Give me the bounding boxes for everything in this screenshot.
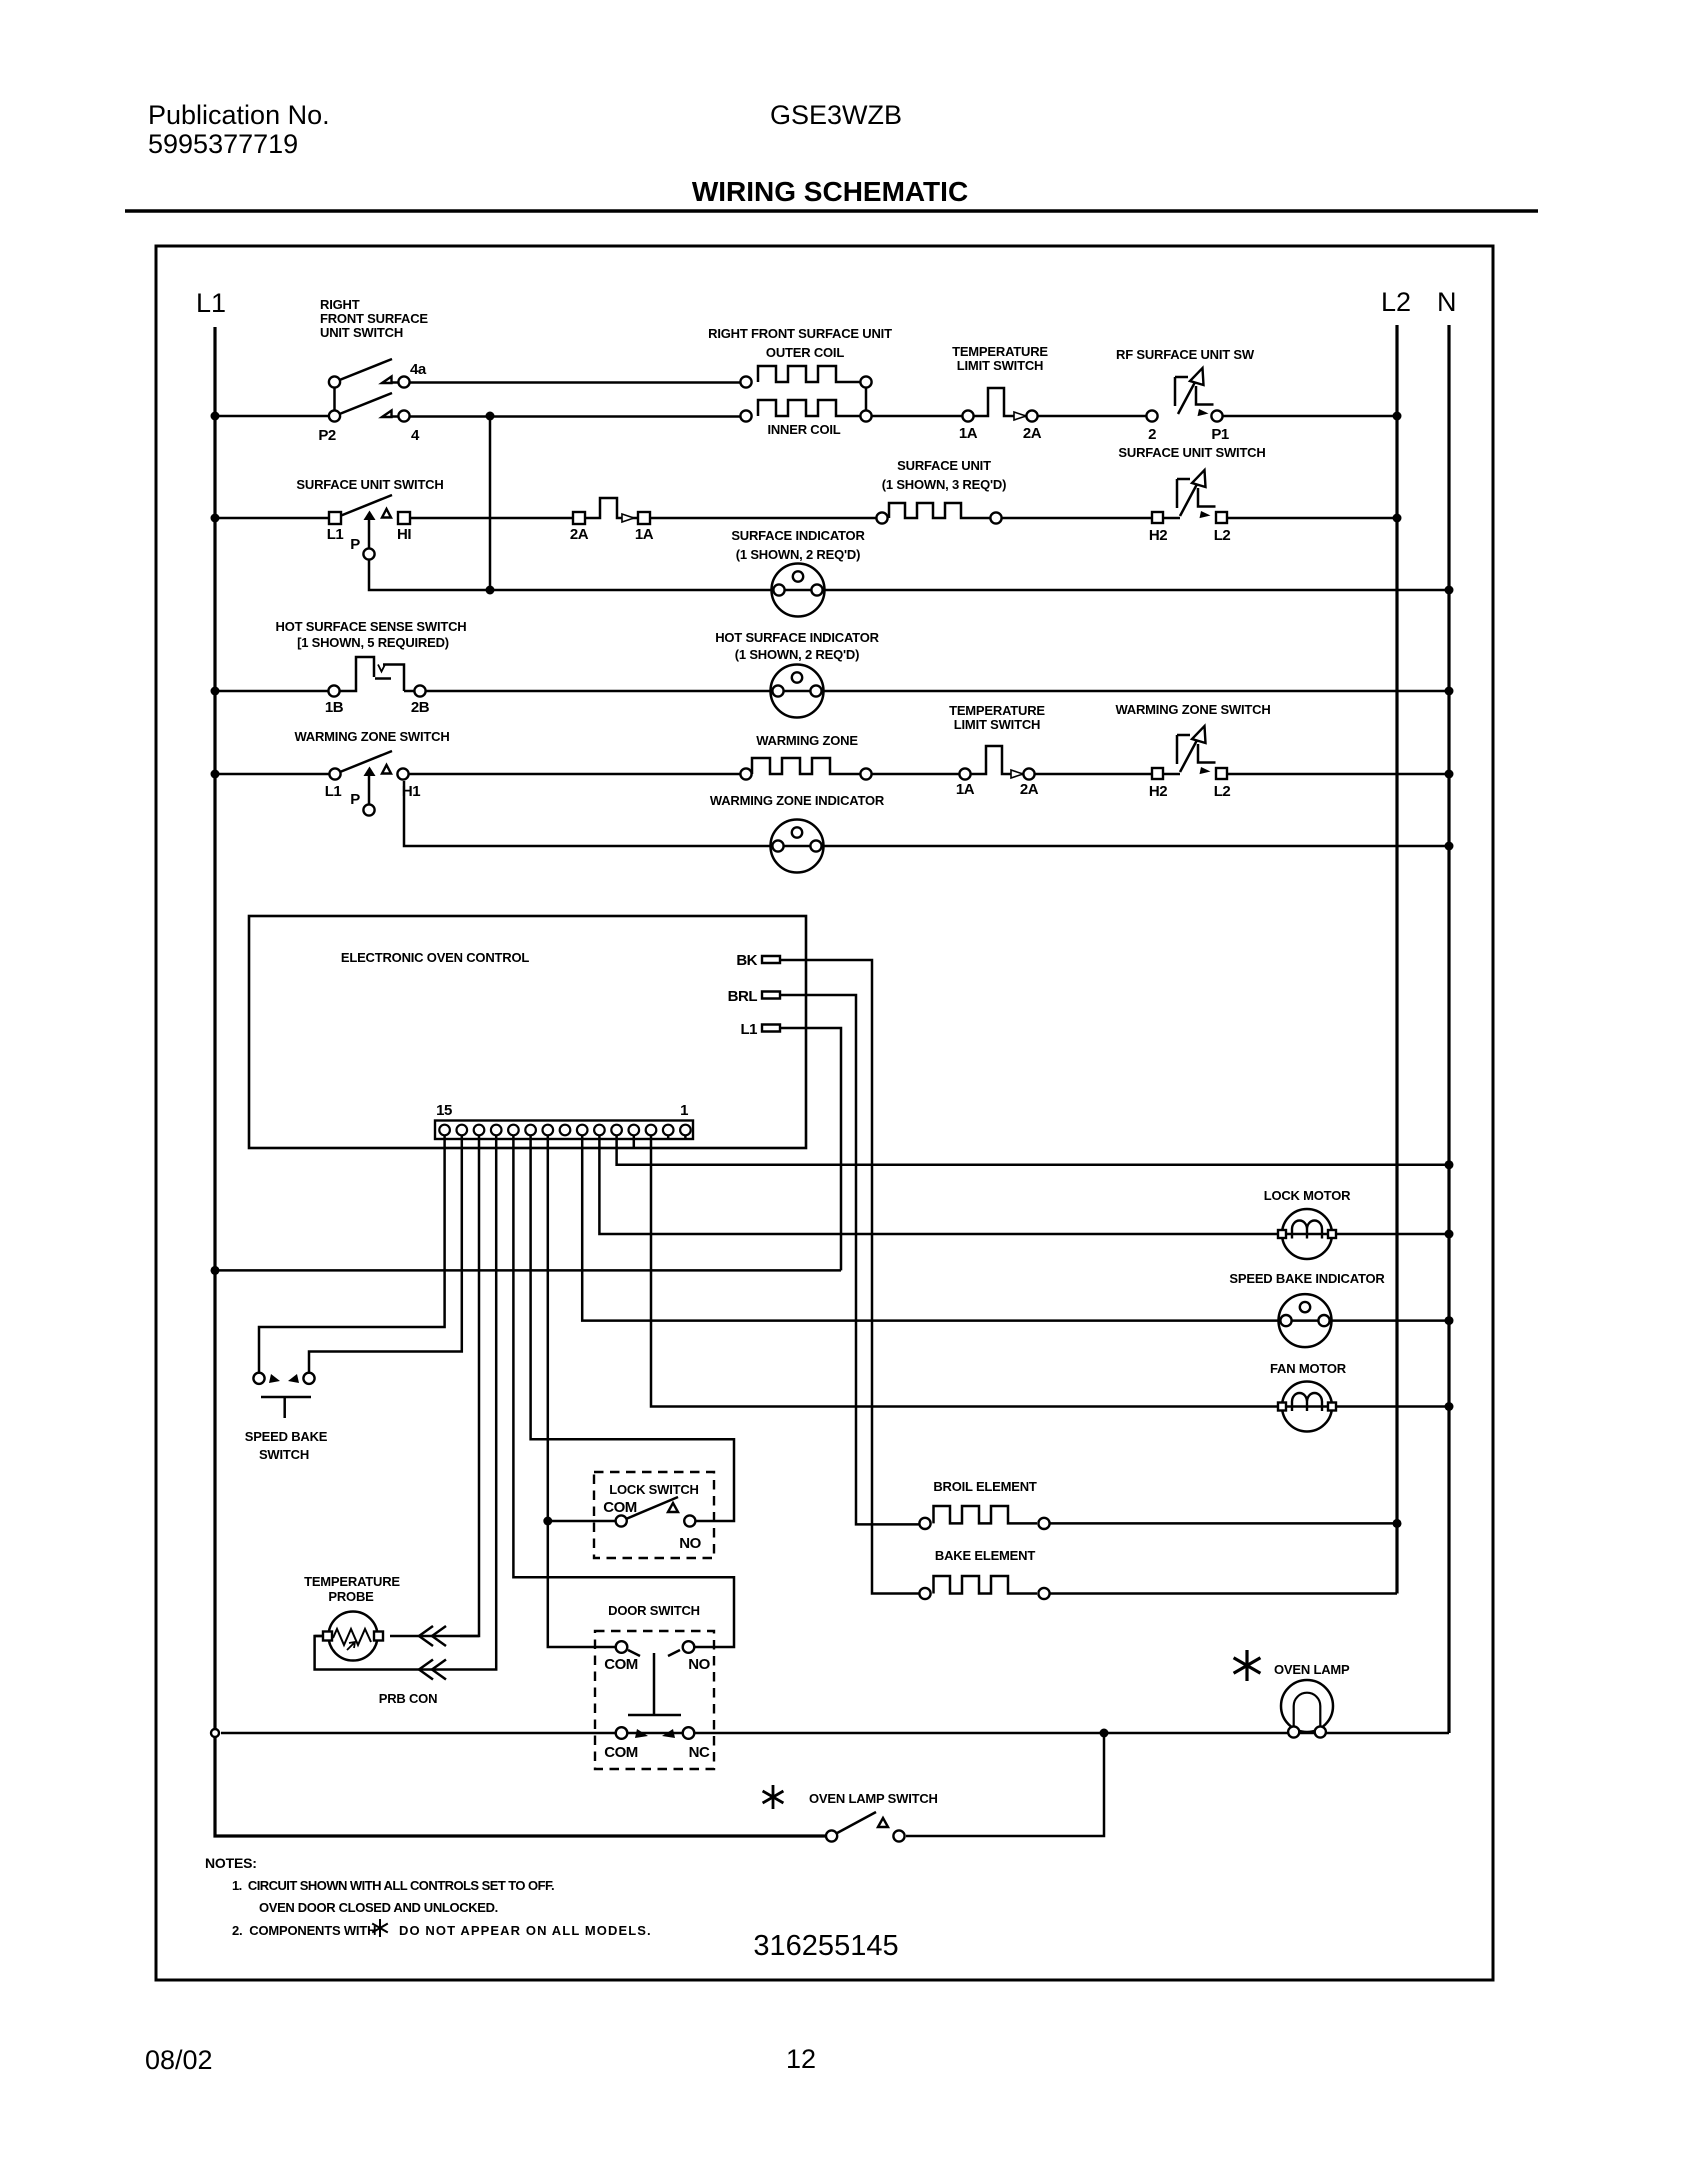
svg-text:4a: 4a xyxy=(410,361,427,378)
svg-text:12: 12 xyxy=(786,2044,816,2074)
svg-text:PROBE: PROBE xyxy=(328,1589,374,1604)
svg-text:BK: BK xyxy=(736,952,757,969)
svg-text:LOCK MOTOR: LOCK MOTOR xyxy=(1264,1188,1351,1203)
svg-text:WARMING ZONE: WARMING ZONE xyxy=(756,733,858,748)
svg-text:P1: P1 xyxy=(1211,426,1229,443)
svg-text:BRL: BRL xyxy=(728,988,758,1005)
svg-text:P2: P2 xyxy=(318,427,336,444)
svg-text:COM: COM xyxy=(604,1656,638,1673)
svg-text:08/02: 08/02 xyxy=(145,2045,213,2075)
svg-text:PRB CON: PRB CON xyxy=(379,1691,438,1706)
svg-text:SURFACE INDICATOR: SURFACE INDICATOR xyxy=(731,528,865,543)
svg-text:OUTER COIL: OUTER COIL xyxy=(766,345,844,360)
svg-text:TEMPERATURE: TEMPERATURE xyxy=(949,703,1045,718)
svg-text:RF SURFACE UNIT SW: RF SURFACE UNIT SW xyxy=(1116,347,1255,362)
svg-text:(1 SHOWN, 3 REQ'D): (1 SHOWN, 3 REQ'D) xyxy=(882,477,1006,492)
svg-text:ELECTRONIC OVEN CONTROL: ELECTRONIC OVEN CONTROL xyxy=(341,950,529,965)
svg-text:2A: 2A xyxy=(1020,781,1039,798)
svg-text:H1: H1 xyxy=(402,783,420,800)
svg-text:INNER COIL: INNER COIL xyxy=(767,422,840,437)
svg-text:TEMPERATURE: TEMPERATURE xyxy=(952,344,1048,359)
svg-text:WARMING ZONE SWITCH: WARMING ZONE SWITCH xyxy=(1115,702,1270,717)
svg-text:2A: 2A xyxy=(570,526,589,543)
svg-text:GSE3WZB: GSE3WZB xyxy=(770,100,902,130)
svg-text:DOOR SWITCH: DOOR SWITCH xyxy=(608,1603,700,1618)
svg-text:RIGHT: RIGHT xyxy=(320,297,360,312)
svg-text:1A: 1A xyxy=(959,425,978,442)
svg-text:TEMPERATURE: TEMPERATURE xyxy=(304,1574,400,1589)
svg-text:L2: L2 xyxy=(1214,783,1231,800)
svg-text:2: 2 xyxy=(1148,426,1156,443)
svg-text:(1 SHOWN, 2 REQ'D): (1 SHOWN, 2 REQ'D) xyxy=(736,547,860,562)
svg-text:OVEN LAMP: OVEN LAMP xyxy=(1274,1662,1350,1677)
svg-text:2B: 2B xyxy=(411,699,430,716)
svg-text:NO: NO xyxy=(688,1656,710,1673)
svg-text:HOT SURFACE SENSE SWITCH: HOT SURFACE SENSE SWITCH xyxy=(276,619,467,634)
svg-text:COM: COM xyxy=(604,1744,638,1761)
svg-text:1. CIRCUIT SHOWN WITH ALL CON: 1. CIRCUIT SHOWN WITH ALL CONTROLS SET T… xyxy=(232,1878,554,1893)
svg-text:[1 SHOWN, 5 REQUIRED): [1 SHOWN, 5 REQUIRED) xyxy=(297,635,449,650)
svg-text:1A: 1A xyxy=(956,781,975,798)
svg-text:SPEED BAKE: SPEED BAKE xyxy=(245,1429,328,1444)
svg-text:NO: NO xyxy=(679,1535,701,1552)
svg-text:L1: L1 xyxy=(327,526,344,543)
svg-text:LOCK SWITCH: LOCK SWITCH xyxy=(609,1482,699,1497)
svg-text:RIGHT FRONT SURFACE UNIT: RIGHT FRONT SURFACE UNIT xyxy=(708,326,892,341)
svg-text:1A: 1A xyxy=(635,526,654,543)
svg-text:15: 15 xyxy=(436,1102,452,1119)
svg-text:316255145: 316255145 xyxy=(753,1930,898,1962)
svg-text:HI: HI xyxy=(397,526,411,543)
svg-text:OVEN DOOR CLOSED AND UNLOCKED.: OVEN DOOR CLOSED AND UNLOCKED. xyxy=(259,1900,498,1915)
svg-text:2A: 2A xyxy=(1023,425,1042,442)
svg-text:(1 SHOWN, 2 REQ'D): (1 SHOWN, 2 REQ'D) xyxy=(735,647,859,662)
svg-text:FRONT SURFACE: FRONT SURFACE xyxy=(320,311,428,326)
svg-text:2. COMPONENTS WITH: 2. COMPONENTS WITH xyxy=(232,1923,376,1938)
svg-text:NOTES:: NOTES: xyxy=(205,1855,257,1871)
svg-text:P: P xyxy=(350,791,360,808)
svg-text:L1: L1 xyxy=(325,783,342,800)
svg-text:WIRING SCHEMATIC: WIRING SCHEMATIC xyxy=(692,176,968,207)
svg-text:1B: 1B xyxy=(325,699,344,716)
svg-text:UNIT SWITCH: UNIT SWITCH xyxy=(320,325,403,340)
svg-text:LIMIT SWITCH: LIMIT SWITCH xyxy=(954,717,1040,732)
svg-text:4: 4 xyxy=(411,427,420,444)
svg-text:SPEED BAKE INDICATOR: SPEED BAKE INDICATOR xyxy=(1229,1271,1385,1286)
svg-text:HOT SURFACE INDICATOR: HOT SURFACE INDICATOR xyxy=(715,630,879,645)
svg-text:SWITCH: SWITCH xyxy=(259,1447,309,1462)
svg-text:SURFACE UNIT: SURFACE UNIT xyxy=(897,458,991,473)
svg-text:L1: L1 xyxy=(740,1021,757,1038)
svg-text:SURFACE UNIT SWITCH: SURFACE UNIT SWITCH xyxy=(296,477,443,492)
svg-text:H2: H2 xyxy=(1149,783,1167,800)
svg-text:WARMING ZONE SWITCH: WARMING ZONE SWITCH xyxy=(294,729,449,744)
svg-text:N: N xyxy=(1437,287,1457,317)
svg-text:BAKE ELEMENT: BAKE ELEMENT xyxy=(935,1548,1035,1563)
svg-text:BROIL ELEMENT: BROIL ELEMENT xyxy=(933,1479,1037,1494)
svg-text:L1: L1 xyxy=(196,288,226,318)
svg-text:L2: L2 xyxy=(1381,287,1411,317)
svg-text:5995377719: 5995377719 xyxy=(148,129,298,159)
svg-text:COM: COM xyxy=(603,1499,637,1516)
svg-text:OVEN LAMP SWITCH: OVEN LAMP SWITCH xyxy=(809,1791,938,1806)
svg-text:FAN MOTOR: FAN MOTOR xyxy=(1270,1361,1347,1376)
svg-text:1: 1 xyxy=(680,1102,688,1119)
svg-text:P: P xyxy=(350,536,360,553)
svg-text:L2: L2 xyxy=(1214,527,1231,544)
svg-text:Publication No.: Publication No. xyxy=(148,100,330,130)
svg-text:H2: H2 xyxy=(1149,527,1167,544)
svg-text:DO NOT APPEAR ON ALL MODELS.: DO NOT APPEAR ON ALL MODELS. xyxy=(399,1923,652,1938)
svg-text:NC: NC xyxy=(689,1744,710,1761)
svg-text:WARMING ZONE INDICATOR: WARMING ZONE INDICATOR xyxy=(710,793,885,808)
svg-text:SURFACE UNIT SWITCH: SURFACE UNIT SWITCH xyxy=(1118,445,1265,460)
svg-text:LIMIT SWITCH: LIMIT SWITCH xyxy=(957,358,1043,373)
